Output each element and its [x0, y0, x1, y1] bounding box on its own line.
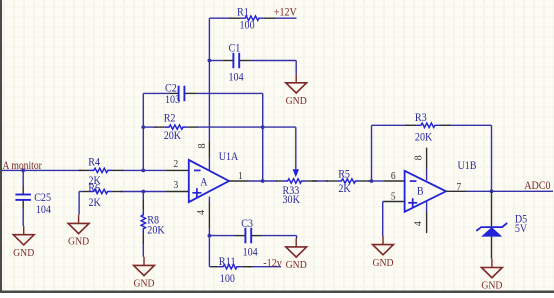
svg-text:104: 104	[36, 204, 51, 216]
power net -12v	[263, 258, 282, 270]
ground GND (R8)	[133, 257, 154, 290]
svg-text:R4: R4	[88, 157, 100, 169]
zener diode D5	[476, 191, 527, 258]
svg-text:5: 5	[391, 192, 396, 203]
svg-text:104: 104	[229, 71, 244, 83]
svg-text:R2: R2	[164, 112, 176, 124]
svg-text:GND: GND	[68, 236, 89, 248]
resistor R4	[79, 157, 123, 188]
wire C3 segment	[209, 236, 296, 239]
svg-text:C2: C2	[165, 83, 177, 95]
wire C25 vertical	[22, 170, 24, 226]
ground GND (R6)	[68, 215, 89, 248]
pin number 2	[174, 159, 179, 170]
wire pin5 lead + GND drop	[383, 202, 405, 237]
ground GND (U1B pin5)	[372, 236, 393, 269]
pin 8 U1A	[197, 141, 209, 171]
net label ADC0	[524, 180, 551, 192]
junction pin6 / R3 tap	[370, 179, 374, 183]
svg-text:B: B	[417, 185, 424, 197]
pin number 3	[174, 180, 179, 191]
wire R3 right vertical	[491, 125, 493, 191]
pin 8 U1B	[414, 148, 427, 181]
ground GND (C1 branch)	[286, 74, 307, 107]
resistor R2	[155, 112, 198, 142]
svg-text:C25: C25	[34, 192, 51, 204]
pin number 1	[238, 171, 243, 182]
svg-text:103: 103	[165, 94, 180, 106]
ground GND (C3)	[286, 238, 307, 271]
power net +12V	[274, 7, 297, 19]
svg-text:A: A	[200, 176, 207, 188]
op-amp U1B	[405, 160, 477, 212]
svg-text:R6: R6	[88, 182, 100, 194]
svg-text:2K: 2K	[338, 183, 350, 195]
wire U1B output to ADC0	[446, 190, 553, 192]
svg-text:6: 6	[391, 171, 396, 182]
svg-text:U1A: U1A	[219, 151, 239, 163]
capacitor C25	[15, 186, 51, 216]
svg-text:GND: GND	[286, 95, 307, 107]
svg-text:8: 8	[197, 143, 208, 148]
wire R8 vertical	[142, 192, 144, 257]
svg-text:GND: GND	[13, 247, 34, 259]
junction pin4/C3/R11	[208, 234, 212, 238]
svg-text:R3: R3	[415, 112, 427, 124]
junction C25 tap	[21, 169, 25, 173]
svg-text:104: 104	[243, 246, 258, 258]
capacitor C3	[235, 218, 262, 259]
junction output / D5	[490, 189, 494, 193]
junction feedback at output	[261, 179, 265, 183]
svg-text:30K: 30K	[283, 194, 300, 206]
pin number 7	[457, 182, 462, 193]
svg-text:2: 2	[174, 159, 179, 170]
svg-text:1: 1	[238, 171, 243, 182]
junction pin2	[141, 169, 145, 173]
svg-text:GND: GND	[372, 257, 393, 269]
wire R2 segment	[143, 126, 262, 128]
wire R11 segment	[209, 236, 281, 267]
wire R3 left vertical	[371, 125, 373, 181]
wire U1A output	[229, 180, 383, 182]
wire C2 top segment	[143, 92, 262, 94]
junction pin3 / R8 top	[141, 190, 145, 194]
wire feedback left vertical	[142, 93, 144, 170]
resistor R3	[406, 112, 451, 144]
svg-text:GND: GND	[286, 259, 307, 271]
wire pin3 lead	[166, 191, 189, 193]
junction C1 tap	[208, 59, 212, 63]
capacitor C1	[222, 42, 250, 83]
resistor R8	[141, 201, 165, 244]
svg-text:8: 8	[414, 155, 425, 160]
svg-text:4: 4	[413, 221, 424, 226]
svg-text:ADC0: ADC0	[524, 180, 551, 192]
resistor R11	[212, 256, 253, 285]
net label A monitor	[3, 160, 43, 172]
svg-text:2K: 2K	[89, 197, 101, 209]
wire R3 top segment	[372, 124, 492, 126]
svg-text:20K: 20K	[164, 130, 181, 142]
svg-text:R11: R11	[219, 256, 236, 268]
wire A monitor line	[2, 169, 166, 171]
wire main vertical supply column	[208, 18, 210, 141]
resistor R6	[83, 182, 123, 209]
potentiometer R33	[276, 169, 317, 206]
junction R2 right / wiper tap	[261, 125, 265, 129]
svg-text:+12V: +12V	[274, 7, 297, 19]
pin number 6	[391, 171, 396, 182]
svg-text:100: 100	[220, 273, 235, 285]
wire pin6 lead	[383, 180, 404, 182]
wire wiper tap to R33 arrow	[263, 127, 296, 169]
svg-text:5V: 5V	[515, 223, 527, 235]
capacitor C2	[165, 83, 197, 106]
wire R6 line	[79, 192, 166, 215]
svg-text:-12v: -12v	[263, 258, 282, 270]
svg-text:C1: C1	[229, 42, 241, 54]
resistor R1	[229, 7, 275, 32]
svg-text:100: 100	[240, 20, 255, 32]
svg-text:3: 3	[174, 180, 179, 191]
svg-text:GND: GND	[133, 278, 154, 290]
ground GND (D5)	[481, 259, 502, 292]
pin 4 U1B	[413, 201, 427, 233]
resistor R5	[326, 169, 371, 196]
svg-text:20K: 20K	[147, 225, 164, 237]
wire +12V rail from main vertical to net label	[209, 17, 296, 19]
wire C1 branch	[209, 61, 296, 75]
svg-text:U1B: U1B	[458, 160, 477, 172]
wire feedback right vertical	[262, 93, 264, 181]
pin number 5	[391, 192, 396, 203]
op-amp U1A	[189, 151, 239, 202]
ground GND (C25)	[13, 226, 34, 259]
pin 4 U1A	[196, 197, 209, 236]
svg-text:4: 4	[196, 210, 207, 215]
svg-text:C3: C3	[241, 218, 253, 230]
svg-text:R5: R5	[338, 169, 350, 181]
wire pin2 lead	[166, 169, 189, 171]
svg-text:20K: 20K	[415, 131, 432, 143]
svg-text:R1: R1	[237, 7, 249, 19]
svg-text:GND: GND	[481, 280, 502, 292]
junction R2 left	[141, 125, 145, 129]
